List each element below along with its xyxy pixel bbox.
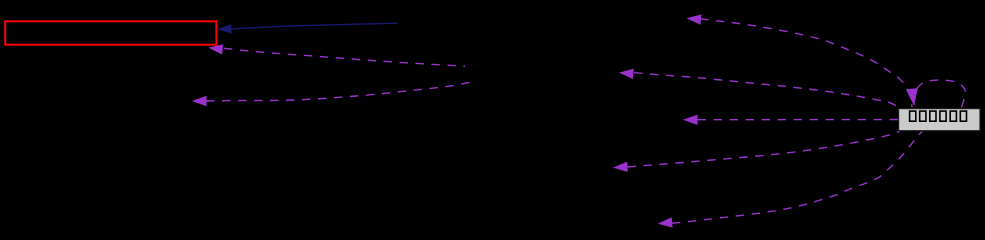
arrowhead E4: [686, 13, 701, 25]
edge E9 (dashed self-loop on gray node): [914, 80, 965, 107]
edge E1 (solid call edge into node N1): [232, 23, 398, 29]
arrowhead E5: [618, 67, 633, 79]
glyph box 5: [950, 111, 956, 121]
glyph box 4: [940, 111, 946, 121]
node N1 (red-bordered function node, label invisible): [5, 21, 216, 44]
arrowhead E6: [683, 115, 698, 125]
edge E4 (dashed edge from gray node, row 1): [700, 19, 912, 107]
arrowhead E8: [657, 217, 672, 229]
node N2 (gray current-function node): [899, 109, 980, 131]
arrowhead E1: [217, 24, 231, 34]
edge E5 (dashed edge from gray node, row 2): [634, 73, 899, 108]
arrowhead E7: [613, 162, 628, 173]
glyph box 3: [930, 111, 936, 121]
edge E2 (dashed edge to node N1 bottom corner): [224, 48, 465, 66]
glyph box 1: [910, 111, 916, 121]
edge E7 (dashed edge from gray node, row 4): [628, 132, 900, 168]
glyph box 6: [960, 111, 966, 121]
arrowhead E9: [906, 88, 920, 106]
edge E3 (dashed edge, lower left): [206, 82, 472, 101]
edge E6 (dashed edge from gray node, row 3, horizontal): [698, 119, 899, 121]
edge E8 (dashed edge from gray node, row 5): [672, 132, 922, 224]
arrowhead E2: [208, 42, 224, 54]
glyph box 2: [920, 111, 926, 121]
arrowhead E3: [192, 96, 207, 106]
